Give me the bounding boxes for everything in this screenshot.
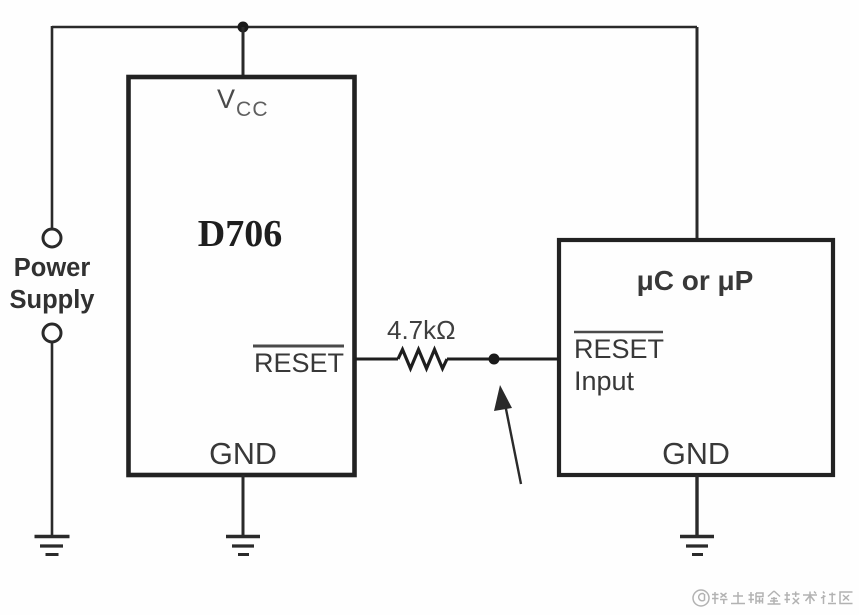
svg-text:μC or μP: μC or μP — [637, 265, 754, 296]
svg-text:Power: Power — [14, 254, 91, 282]
svg-text:RESET: RESET — [574, 334, 664, 364]
power supply terminal top — [43, 229, 61, 247]
svg-text:GND: GND — [662, 437, 730, 471]
svg-text:Input: Input — [574, 366, 635, 396]
svg-text:D706: D706 — [198, 213, 282, 255]
wire top rail drop to uC box — [696, 27, 699, 240]
value label 4.7kOhm — [387, 315, 456, 345]
watermark (site credit, faint gray CJK glyph shapes) — [693, 590, 853, 606]
microcontroller U2 box uC or uP — [559, 240, 833, 475]
node junction top rail to VCC — [238, 22, 249, 33]
IC label D706 — [198, 213, 282, 255]
power supply terminal bottom — [43, 324, 61, 342]
wire D706 RESET to resistor — [355, 358, 398, 361]
svg-text:RESET: RESET — [254, 348, 344, 378]
wire D706 GND lead — [242, 475, 245, 536]
ground (D706) — [226, 537, 260, 555]
wire uC GND lead — [695, 475, 698, 536]
wire VCC drop to D706 — [242, 27, 245, 76]
pin label RESET (D706 output) with overline — [253, 346, 344, 378]
node junction at RESET input — [489, 354, 500, 365]
ground (power supply) — [35, 537, 70, 555]
pin label GND (uC) — [662, 437, 730, 471]
ground (uC) — [680, 537, 714, 555]
pin label RESET Input with overline — [574, 332, 664, 396]
label Power Supply — [9, 254, 95, 314]
svg-text:GND: GND — [209, 437, 277, 471]
wire power supply bottom lead — [51, 342, 54, 536]
svg-text:4.7kΩ: 4.7kΩ — [387, 315, 456, 345]
wire top rail from power supply to uC — [52, 26, 697, 29]
annotation arrow pointing at node — [494, 385, 521, 484]
svg-text:Supply: Supply — [9, 286, 95, 314]
svg-text:CC: CC — [236, 98, 269, 121]
label uC or uP — [637, 265, 754, 296]
svg-text:V: V — [217, 84, 235, 114]
resistor R1 zigzag — [398, 350, 447, 369]
pin label VCC — [217, 84, 269, 121]
wire power supply top lead — [51, 26, 54, 229]
IC D706 box — [129, 77, 355, 475]
wire resistor to uC RESET input — [447, 358, 559, 361]
pin label GND (D706) — [209, 437, 277, 471]
